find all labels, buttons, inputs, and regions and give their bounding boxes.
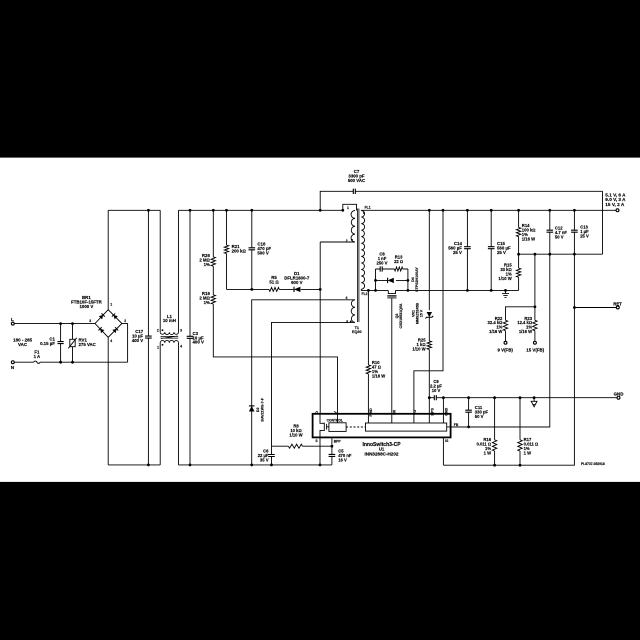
U1 internal primary mosfet	[320, 414, 324, 438]
svg-text:1 A: 1 A	[34, 354, 41, 359]
terminal 15 V(FB)	[533, 341, 536, 344]
dashed link control to secondary	[346, 426, 365, 428]
resistor R19	[212, 266, 214, 295]
neutral input terminal N	[11, 361, 14, 364]
inductor L1 top winding	[160, 332, 178, 334]
svg-text:16 V: 16 V	[338, 457, 347, 462]
svg-text:2: 2	[346, 239, 348, 243]
bridge diode R-to-top	[112, 313, 118, 319]
svg-text:RET: RET	[613, 302, 622, 307]
zener VR1 and resistor R25 chain to BPS	[428, 210, 430, 310]
svg-text:0.15 µF: 0.15 µF	[40, 341, 55, 346]
svg-text:1: 1	[110, 303, 112, 307]
resistor R8	[272, 445, 332, 447]
U1 secondary controller block	[366, 423, 447, 431]
svg-text:50 V: 50 V	[555, 235, 564, 240]
fuse F1 symbol	[34, 361, 40, 363]
U1 CONTROL block	[329, 423, 346, 432]
clamp line with R5 and D1	[227, 288, 321, 290]
svg-text:4: 4	[180, 345, 182, 349]
svg-text:1 W: 1 W	[484, 450, 491, 455]
capacitor C13 and RTN rail	[443, 210, 574, 465]
primary bottom rail left segment	[108, 464, 160, 466]
svg-text:BPP: BPP	[334, 439, 342, 443]
svg-text:FL2: FL2	[362, 292, 368, 296]
capacitor C8 and resistor R13 in series	[376, 268, 408, 270]
resistor R16	[494, 398, 496, 466]
resistor R14	[518, 210, 520, 227]
svg-text:VAC: VAC	[18, 342, 28, 347]
svg-text:SR: SR	[392, 410, 396, 415]
svg-text:1/10 W: 1/10 W	[289, 433, 302, 438]
GND terminal	[617, 396, 620, 399]
white schematic band	[0, 158, 640, 482]
resistor R15	[516, 268, 520, 277]
svg-text:1/10 W: 1/10 W	[412, 346, 425, 351]
SR mosfet Q3	[388, 290, 395, 293]
feedback tap line	[519, 253, 603, 255]
capacitor C9	[429, 397, 443, 399]
wire L to bridge	[14, 323, 95, 325]
wire secondary bottom: T1 to SR fet	[361, 289, 388, 290]
bridge diode bottom-to-L	[98, 327, 104, 333]
svg-text:200 kΩ: 200 kΩ	[232, 248, 247, 253]
svg-text:22 Ω: 22 Ω	[394, 259, 403, 264]
svg-text:10 V: 10 V	[432, 388, 441, 393]
RTN terminal	[574, 307, 616, 309]
capacitor C11	[468, 398, 470, 427]
primary top bus right segment	[179, 209, 343, 211]
svg-text:CONTROL: CONTROL	[327, 419, 343, 423]
output terminal 5.1V/9V/15V	[616, 209, 619, 212]
svg-text:400 V: 400 V	[193, 340, 204, 345]
svg-text:1/16 W: 1/16 W	[522, 236, 535, 241]
svg-text:1%: 1%	[204, 300, 210, 305]
svg-text:1: 1	[157, 346, 159, 350]
diode D1	[294, 287, 300, 292]
T1 bias phasing dot	[350, 320, 352, 322]
wire FB pin line	[447, 426, 550, 428]
svg-text:1/16 W: 1/16 W	[519, 329, 532, 334]
svg-text:500 V: 500 V	[257, 251, 268, 256]
capacitor C6	[271, 446, 273, 465]
wire T1 bias pin 5 to C6 branch	[272, 322, 356, 446]
svg-text:400 V: 400 V	[132, 338, 143, 343]
ground symbol on RTN line	[502, 290, 509, 297]
svg-text:INN3268C-H202: INN3268C-H202	[365, 451, 399, 456]
wire bridge - output down to rail	[107, 337, 109, 465]
svg-text:D: D	[315, 411, 319, 414]
transformer T1 bias winding	[351, 300, 355, 323]
U1 pin stubs inside body	[368, 414, 443, 423]
svg-text:25 V: 25 V	[580, 234, 589, 239]
secondary GND line	[443, 397, 616, 399]
resistor R17	[519, 398, 521, 466]
svg-text:25 V: 25 V	[453, 250, 462, 255]
svg-text:1%: 1%	[204, 262, 210, 267]
wire IS pin to secondary rail	[442, 437, 444, 465]
L1 phasing dot top	[162, 329, 164, 331]
svg-text:4: 4	[346, 296, 348, 300]
capacitor C14	[466, 210, 468, 290]
wire secondary top: T1 to output bus	[361, 209, 617, 211]
L1 core lines	[161, 336, 179, 339]
svg-text:GND: GND	[614, 391, 624, 396]
capacitor C7 line	[320, 191, 602, 254]
svg-text:15 V, 2 A: 15 V, 2 A	[605, 202, 625, 207]
capacitor C3	[189, 210, 191, 465]
resistor R23 branch from tap	[534, 254, 536, 320]
wire BPP pin with C5	[331, 437, 333, 465]
diode D4	[376, 279, 408, 281]
capacitor C18	[251, 210, 253, 289]
svg-text:25 V: 25 V	[497, 250, 506, 255]
chassis ground symbol	[531, 398, 537, 407]
transformer T1 primary winding	[351, 211, 355, 243]
wire L1 pin 1 to rail	[159, 343, 161, 465]
svg-text:FB: FB	[454, 423, 459, 427]
svg-text:3: 3	[89, 319, 91, 323]
primary bottom rail right segment	[179, 464, 332, 466]
svg-text:CSD19531Q5A: CSD19531Q5A	[399, 303, 403, 328]
wire R19 to V pin	[213, 304, 337, 414]
wire GND pin	[442, 398, 444, 414]
svg-text:BAV21WS-7-F: BAV21WS-7-F	[260, 397, 264, 421]
svg-text:STPS2H100AY: STPS2H100AY	[415, 267, 419, 292]
transformer T1 secondary winding	[361, 211, 364, 290]
svg-text:250 V: 250 V	[377, 260, 388, 265]
resistor R22 branch	[506, 307, 535, 321]
capacitor C12 and FB feed line	[451, 210, 550, 427]
wire L1 pin 4 to rail	[178, 343, 180, 465]
resistor R10 to FWD pin	[367, 290, 369, 413]
svg-text:1/16 W: 1/16 W	[489, 329, 502, 334]
svg-text:50 V: 50 V	[475, 414, 484, 419]
svg-text:2: 2	[157, 328, 159, 332]
resistor R26	[212, 210, 214, 257]
wire Q3 gate to SR pin	[391, 298, 393, 414]
L1 phasing dot bottom	[162, 344, 164, 346]
T1 secondary phasing dot	[363, 212, 365, 214]
wire bridge + output up to bus	[107, 210, 109, 309]
svg-text:500 VAC: 500 VAC	[348, 178, 366, 183]
svg-text:275 VAC: 275 VAC	[79, 342, 97, 347]
svg-text:1: 1	[347, 206, 349, 210]
svg-text:VO: VO	[413, 410, 417, 415]
wire S pin to primary rail	[319, 437, 321, 465]
transformer T1 primary pin 1 jog	[343, 204, 357, 210]
svg-text:EQ30: EQ30	[352, 330, 362, 334]
svg-text:600 V: 600 V	[291, 280, 302, 285]
wire bus to L1 pin 2	[159, 210, 161, 332]
svg-text:BPS: BPS	[430, 408, 434, 416]
T1 primary phasing dot	[351, 239, 353, 241]
svg-text:3: 3	[180, 328, 182, 332]
bridge rectifier BR1 diamond	[95, 310, 122, 338]
diode D2	[251, 406, 253, 465]
IC U1 InnoSwitch3-CP body	[313, 414, 451, 438]
svg-text:1/10 W: 1/10 W	[498, 276, 511, 281]
wire bus to L1 pin 3	[178, 210, 180, 332]
capacitor C15	[490, 210, 492, 290]
wire drain node: T1 pin 2 down to U1 D pin	[320, 242, 355, 414]
resistor R21	[226, 210, 228, 245]
wire bus to VO pin	[414, 210, 443, 413]
svg-text:9 V(FB): 9 V(FB)	[498, 348, 514, 353]
wire RTN line from Q3 to R15	[396, 289, 519, 291]
capacitor C17	[147, 210, 149, 465]
svg-text:GND: GND	[444, 407, 448, 415]
primary top bus left segment	[108, 209, 160, 211]
capacitor C1	[60, 324, 62, 363]
svg-text:FL1: FL1	[365, 206, 371, 210]
bridge diode bottom-to-R	[112, 327, 118, 333]
varistor RV1	[72, 324, 74, 363]
V pin stub inside body	[337, 414, 339, 423]
svg-text:15 V: 15 V	[420, 309, 424, 317]
wire N through fuse to bridge	[14, 324, 128, 363]
terminal 9 V(FB)	[504, 341, 507, 344]
svg-text:L: L	[11, 317, 14, 322]
svg-text:5: 5	[346, 320, 348, 324]
svg-text:51 Ω: 51 Ω	[269, 279, 279, 284]
svg-text:35 V: 35 V	[260, 457, 269, 462]
bridge diode L-to-top	[99, 313, 105, 319]
svg-text:2: 2	[124, 319, 126, 323]
svg-text:FWD: FWD	[369, 408, 373, 417]
svg-text:PI-8737-052918: PI-8737-052918	[581, 462, 605, 466]
svg-text:4: 4	[110, 339, 112, 343]
svg-text:1 W: 1 W	[524, 450, 531, 455]
svg-text:1000 V: 1000 V	[80, 304, 94, 309]
svg-text:15 V(FB): 15 V(FB)	[526, 348, 544, 353]
wire T1 bias pin 4 to D2	[252, 300, 355, 406]
transformer core	[357, 209, 359, 323]
inductor L1 bottom winding	[160, 340, 178, 342]
line input terminal L	[11, 322, 14, 325]
svg-text:1/16 W: 1/16 W	[372, 373, 385, 378]
svg-text:10 mH: 10 mH	[163, 318, 176, 323]
snubber block verticals	[376, 269, 408, 290]
